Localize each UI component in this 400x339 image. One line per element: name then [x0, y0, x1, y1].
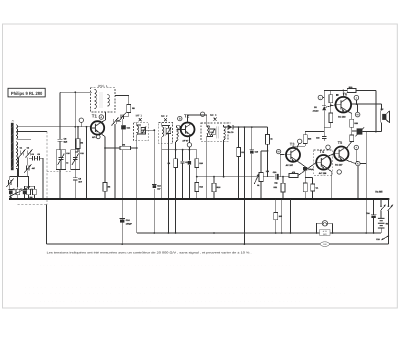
diode D2 AA119: [322, 106, 326, 110]
capacitor C7: [22, 189, 26, 191]
coil winding L4b: [108, 95, 110, 106]
wire C16 column: [121, 129, 123, 244]
wire C23 column: [305, 178, 312, 200]
test point above T2: [200, 112, 204, 116]
svg-text:R25: R25: [354, 122, 357, 125]
svg-text:+: +: [356, 96, 358, 100]
svg-text:Les tensions indiquées ont été: Les tensions indiquées ont été mesurées …: [47, 251, 252, 255]
svg-text:T2: T2: [184, 114, 190, 119]
wire T4 collector to T5 base: [327, 154, 335, 157]
test point plus right: [354, 145, 358, 149]
node L2 junctions: [121, 243, 123, 245]
svg-text:C13: C13: [157, 185, 160, 188]
svg-text:OSC. 1: OSC. 1: [98, 84, 108, 88]
svg-text:C1: C1: [20, 147, 22, 150]
wire C19 column: [251, 127, 253, 199]
wire osc box to R5: [115, 95, 129, 104]
resistor R5: [127, 105, 131, 113]
resistor R20: [329, 95, 333, 103]
test point E below T2: [187, 143, 191, 147]
resistor R4b: [33, 189, 37, 195]
wire output top rail: [324, 89, 376, 91]
svg-text:T1: T1: [92, 113, 98, 118]
svg-text:AC 132: AC 132: [338, 115, 346, 118]
svg-text:10µ: 10µ: [274, 181, 277, 184]
svg-text:4k7: 4k7: [32, 167, 35, 170]
wire speaker loop bottom: [366, 131, 381, 133]
wire trimmer links: [115, 115, 122, 200]
svg-text:R10: R10: [199, 162, 202, 165]
svg-text:(90): (90): [323, 233, 327, 236]
svg-text:C20: C20: [273, 171, 276, 174]
wire R20 R22 column: [324, 90, 331, 127]
wire R17 top feed: [305, 132, 324, 135]
svg-text:100µF: 100µF: [126, 223, 133, 226]
node top bus / C5 column: [74, 91, 76, 93]
test point between T4 T5: [326, 145, 330, 149]
wire R15 column: [213, 177, 215, 199]
gang coupling dashes: [47, 171, 71, 173]
wire T6 base: [331, 104, 336, 106]
wire R7 bottom: [75, 148, 78, 152]
MF1 winding: [137, 126, 139, 135]
wire battery feed column: [365, 132, 367, 233]
svg-text:AC 127: AC 127: [335, 163, 343, 166]
svg-text:R1: R1: [13, 188, 15, 191]
tuning gang section CV2 box: [71, 150, 80, 170]
resistor R21: [281, 183, 285, 192]
wire MF2 internals: [162, 123, 170, 234]
wire MF1 column to L1: [136, 141, 138, 233]
switch I1 pole a: [380, 199, 382, 206]
resistor R7 on divider: [77, 127, 79, 139]
svg-text:R15: R15: [217, 186, 220, 189]
wire R13 column: [238, 127, 240, 199]
wire T3 base feed: [280, 154, 286, 176]
test point tilde T6: [318, 95, 323, 100]
wire secondary to T2 base: [177, 126, 181, 130]
svg-text:R8: R8: [108, 186, 110, 189]
wire antenna to T1 base: [17, 126, 91, 128]
svg-text:C2: C2: [31, 188, 33, 191]
svg-text:C6: C6: [31, 153, 33, 156]
main supply bus: [9, 198, 389, 200]
svg-text:MF 3: MF 3: [210, 113, 217, 117]
resistor R9: [174, 159, 178, 168]
test point below T5: [337, 170, 341, 174]
wire C13 column: [153, 130, 155, 233]
transistor T6: [336, 97, 352, 113]
capacitor C8b: [38, 156, 40, 161]
IF transformer MF3 dashed box: [201, 123, 228, 141]
resistor R13: [237, 148, 241, 157]
wire right rail column: [375, 90, 377, 131]
resistor R26: [350, 135, 354, 142]
resistor R8: [103, 183, 107, 192]
test point K: [356, 161, 360, 165]
node base divider: [86, 126, 88, 128]
wire ground rail L1: [137, 232, 381, 234]
node bus left cluster: [14, 198, 16, 200]
capacitor C6: [33, 156, 35, 161]
wire R9 column: [175, 141, 178, 233]
MF1 core: [139, 126, 141, 134]
wire T1 collector: [101, 112, 106, 123]
wire R21 column: [282, 177, 284, 199]
resistor R15: [212, 183, 216, 192]
diode D1 OA79: [224, 126, 229, 128]
wire plain column b: [290, 199, 292, 233]
trimmer C2: [26, 149, 33, 157]
svg-text:AF 97: AF 97: [182, 140, 189, 143]
wire thermistor to battery column: [362, 131, 366, 133]
resistor R4: [27, 189, 31, 195]
transistor T4: [316, 155, 331, 170]
capacitor C24 below bus: [373, 199, 375, 233]
resistor R22: [329, 113, 333, 123]
resistor R16: [266, 134, 270, 144]
svg-text:470: 470: [292, 171, 295, 174]
test point under T1: [96, 135, 100, 139]
svg-text:R6: R6: [123, 143, 125, 146]
svg-text:T5: T5: [338, 140, 343, 145]
label A11: [320, 230, 330, 236]
wire T3 collector to R17: [293, 144, 305, 148]
wire D2 to T6 base: [324, 105, 335, 108]
wire trimmer cluster: [18, 158, 43, 177]
trimmer C10: [119, 113, 126, 122]
trimmer C1: [19, 149, 26, 157]
capacitor C16 100uF: [120, 218, 125, 220]
MF3 secondary winding: [224, 127, 226, 140]
wire L2 right corner: [387, 236, 389, 244]
wire R10 R12 column: [196, 150, 198, 199]
wire C17 column: [182, 150, 184, 199]
trimmer C4: [6, 179, 13, 188]
wire T1 emitter column: [101, 133, 105, 182]
resistor R24: [303, 183, 307, 192]
coil winding L4a: [95, 90, 97, 109]
capacitor C18: [188, 161, 191, 165]
wire R27 column: [275, 199, 277, 233]
wire antenna bottom tap: [16, 140, 31, 187]
svg-text:A: A: [100, 116, 102, 119]
svg-text:I 2A: I 2A: [376, 238, 380, 241]
capacitor C8 4n7: [73, 178, 78, 180]
thermistor R27: [352, 130, 357, 132]
resistor R12: [195, 183, 199, 192]
test point M T6: [355, 112, 360, 117]
svg-text:AA119: AA119: [313, 109, 319, 112]
mechanical dashed coupling: [18, 131, 48, 204]
svg-text:C19: C19: [255, 150, 258, 153]
wire T4 emitter: [327, 168, 332, 199]
svg-text:M: M: [357, 114, 359, 117]
wire antenna tap: [17, 130, 47, 132]
wires bottom row: [11, 158, 43, 199]
wire L2 left riser: [46, 205, 48, 245]
MF2 secondary winding: [177, 128, 179, 141]
wire C20 to R18: [279, 176, 289, 178]
wire AGC return column: [243, 127, 245, 244]
wire T5 emitter to K: [345, 160, 367, 164]
driver stage dashed box: [314, 150, 333, 175]
antenna winding top: [16, 125, 18, 139]
wire pot bottom to bus: [260, 182, 262, 200]
wire cluster rail: [10, 171, 29, 189]
svg-text:5k6: 5k6: [308, 138, 311, 141]
resistor R18 470: [289, 174, 298, 178]
wire R18 to T4 base: [298, 162, 316, 175]
test point B: [178, 116, 182, 120]
node L1 junctions: [153, 232, 374, 234]
antenna winding bottom: [16, 142, 18, 167]
svg-text:C15: C15: [316, 137, 319, 140]
transistor T3: [286, 148, 300, 162]
MF3 primary winding: [207, 127, 209, 137]
capacitor C15: [322, 136, 326, 138]
wire output node line: [352, 100, 382, 104]
svg-text:R3: R3: [81, 142, 83, 145]
svg-text:Ka M5: Ka M5: [375, 191, 383, 194]
test point A: [99, 115, 103, 119]
capacitor C3: [9, 189, 13, 191]
wire T6 collector to rail: [342, 90, 344, 97]
resistor R17: [303, 135, 307, 144]
wire R6 to MF1 column: [131, 147, 137, 149]
svg-text:~: ~: [320, 96, 322, 100]
svg-text:C17: C17: [185, 161, 188, 164]
wire speaker leads: [381, 104, 383, 132]
wire T2 collector to MF3: [188, 115, 207, 123]
wire base divider column: [86, 127, 88, 199]
svg-text:+: +: [355, 146, 357, 150]
resistor R25: [350, 119, 354, 127]
svg-text:R12: R12: [199, 186, 202, 189]
transistor T2: [181, 122, 195, 136]
MF3 core: [217, 126, 219, 138]
variable capacitor CV1: [58, 150, 65, 170]
wire T3 emitter: [296, 161, 305, 168]
svg-text:M: M: [278, 151, 280, 154]
svg-text:MF 2: MF 2: [161, 114, 168, 118]
wire C22 column: [304, 171, 306, 200]
transistor T5: [334, 147, 348, 161]
wire R2 down: [27, 171, 29, 177]
wire T6 emitter column: [346, 111, 352, 149]
capacitor C20 10uF: [274, 174, 276, 180]
wire pot wiper line: [263, 176, 274, 178]
switch I2: [382, 211, 388, 240]
wire T3 to test point: [296, 144, 299, 150]
svg-text:C8: C8: [37, 153, 39, 156]
antenna ferrite rod: [11, 123, 14, 170]
resistor R10: [195, 159, 199, 168]
wire volume line: [197, 176, 259, 178]
trimmer R2: [24, 164, 31, 172]
svg-text:R21: R21: [274, 186, 277, 189]
IF transformer MF1 dashed box: [134, 122, 149, 140]
svg-text:K: K: [357, 163, 359, 166]
resistor R6: [120, 146, 131, 150]
svg-text:150: 150: [279, 215, 282, 218]
wire AGC line: [162, 149, 197, 151]
svg-text:AC 128: AC 128: [319, 172, 327, 175]
resistor R19: [347, 89, 356, 93]
test point plus T6: [354, 95, 359, 100]
title box Philips 9 RL 280: [8, 88, 45, 97]
battery 9V: [380, 211, 382, 233]
capacitor C15 MF2: [166, 128, 171, 133]
wire T6 left column with D2: [323, 90, 325, 141]
wire C4 leads: [9, 177, 11, 190]
MF2 winding: [162, 127, 164, 137]
svg-text:Philips 9 RL 280: Philips 9 RL 280: [11, 91, 43, 96]
wire detector node line: [233, 126, 268, 128]
svg-text:B: B: [179, 118, 181, 121]
dial lamp: [322, 221, 327, 226]
test point left of T1: [79, 118, 83, 122]
variable capacitor CV2: [72, 150, 79, 170]
capacitor C17: [181, 161, 185, 163]
capacitor C21: [210, 129, 215, 135]
MF2 core: [164, 127, 166, 136]
switch I1 pole b: [387, 199, 389, 206]
wire return rail L2: [47, 243, 389, 245]
potentiometer R20 volume: [259, 173, 263, 182]
svg-text:0,1: 0,1: [316, 187, 319, 190]
oscillator coil OSC.1 dashed box: [91, 88, 116, 112]
tuning gang section CV1 box: [56, 150, 66, 170]
svg-text:13: 13: [66, 162, 68, 165]
svg-text:T4: T4: [319, 149, 324, 154]
svg-text:MF 1: MF 1: [136, 114, 143, 118]
capacitor C13: [152, 183, 156, 185]
wire R8 to bus: [104, 191, 106, 199]
svg-text:R19: R19: [349, 86, 352, 89]
resistor R1: [16, 189, 20, 195]
svg-text:R9: R9: [168, 162, 170, 165]
svg-text:C2: C2: [27, 147, 29, 150]
tuning gang arrow: [9, 187, 28, 196]
capacitor C22 100uF: [303, 167, 307, 171]
node bus junctions: [60, 198, 390, 200]
resistor R27 150: [274, 213, 278, 220]
wire MF1 internals: [137, 122, 155, 140]
svg-text:4n7: 4n7: [157, 188, 160, 191]
wire MF3 internals: [207, 123, 224, 199]
trimmer C9: [112, 117, 119, 125]
test point B T3: [298, 139, 302, 143]
svg-text:AC 107: AC 107: [286, 164, 294, 167]
wire emitter line R6: [105, 147, 120, 149]
svg-text:C10: C10: [66, 152, 69, 155]
IF transformer MF2 dashed box: [159, 123, 173, 144]
capacitor C14 (electrolytic): [121, 125, 126, 129]
wire R5 down: [122, 113, 129, 117]
coil core: [100, 92, 102, 108]
transistor T1: [91, 121, 104, 134]
svg-text:C12: C12: [80, 152, 83, 155]
wire plus column to bus: [356, 150, 358, 199]
dial lamp bypass: [317, 223, 333, 233]
wire C5 column: [59, 92, 61, 199]
fuse on L2: [320, 242, 329, 247]
test point M volume: [276, 149, 280, 153]
svg-text:OA 79: OA 79: [228, 131, 235, 134]
node antenna line: [74, 126, 76, 128]
capacitor C5: [57, 139, 62, 141]
wire top bus: [60, 91, 92, 93]
wire oscillator column: [74, 92, 76, 199]
capacitor C23: [311, 184, 315, 191]
wire plain column a: [281, 199, 283, 233]
capacitor C11: [141, 128, 145, 133]
wire T2 emitter: [188, 136, 190, 199]
bleed-through ghost text: [25, 263, 345, 303]
wire R16 column: [261, 127, 268, 177]
capacitor C19: [250, 149, 254, 151]
